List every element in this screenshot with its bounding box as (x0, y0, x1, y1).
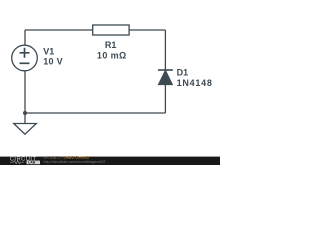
svg-text:10 mΩ: 10 mΩ (97, 51, 127, 61)
footer bar (0, 157, 220, 165)
resistor R1 (93, 25, 129, 35)
svg-text:1N4148: 1N4148 (177, 78, 213, 88)
wire right vertical upper (corner to D1 cathode) (164, 30, 166, 70)
wire top horizontal right (R1 to corner) (129, 29, 165, 31)
wire top-left vertical (V1 top to corner) (24, 30, 26, 46)
diode D1 (158, 70, 173, 85)
label R1 value (97, 40, 127, 61)
svg-text:D1: D1 (177, 68, 189, 78)
wire left vertical lower (V1 bottom to node) (24, 71, 26, 114)
svg-text:http://circuitlab.com/c/xxx/la: http://circuitlab.com/c/xxx/labsgmz622 (43, 160, 105, 164)
voltage source V1 (12, 45, 38, 71)
node junction dot (23, 111, 27, 115)
label D1 value (177, 68, 213, 88)
svg-text:R1: R1 (105, 40, 117, 50)
svg-text:V1: V1 (43, 46, 54, 56)
wire right vertical lower (D1 anode to corner) (164, 85, 166, 113)
wire ground stem (24, 113, 26, 124)
label V1 value (43, 46, 63, 66)
wire top horizontal left (corner to R1) (25, 29, 93, 31)
svg-text:10 V: 10 V (43, 57, 63, 67)
svg-text:LAB: LAB (28, 161, 36, 165)
wire bottom horizontal (25, 112, 165, 114)
ground (14, 124, 37, 135)
footer logo CIRCUIT LAB (10, 157, 40, 165)
